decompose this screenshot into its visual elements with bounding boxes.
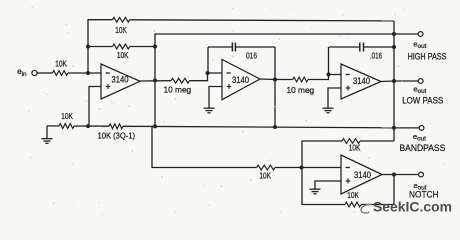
svg-text:10K: 10K [115, 25, 127, 35]
svg-text:10 meg: 10 meg [287, 85, 315, 95]
svg-text:3140: 3140 [112, 75, 129, 85]
svg-text:3140: 3140 [353, 76, 370, 86]
svg-text:10 meg: 10 meg [164, 85, 192, 95]
svg-text:NOTCH: NOTCH [409, 189, 439, 199]
svg-text:LOW PASS: LOW PASS [402, 95, 443, 105]
svg-text:10K: 10K [55, 59, 67, 69]
svg-text:10K: 10K [61, 111, 73, 121]
svg-text:3140: 3140 [232, 75, 249, 85]
svg-text:10K (3Q-1): 10K (3Q-1) [98, 130, 136, 140]
svg-text:10K: 10K [349, 142, 361, 152]
svg-text:016: 016 [246, 51, 257, 61]
svg-text:10K: 10K [117, 50, 129, 60]
svg-text:10K: 10K [347, 190, 359, 200]
svg-text:HIGH PASS: HIGH PASS [408, 52, 447, 62]
svg-text:.016: .016 [370, 51, 382, 61]
svg-text:3140: 3140 [354, 170, 371, 180]
svg-text:BANDPASS: BANDPASS [400, 143, 446, 153]
svg-text:SeekIC.com: SeekIC.com [373, 199, 452, 214]
svg-text:10K: 10K [259, 170, 271, 180]
